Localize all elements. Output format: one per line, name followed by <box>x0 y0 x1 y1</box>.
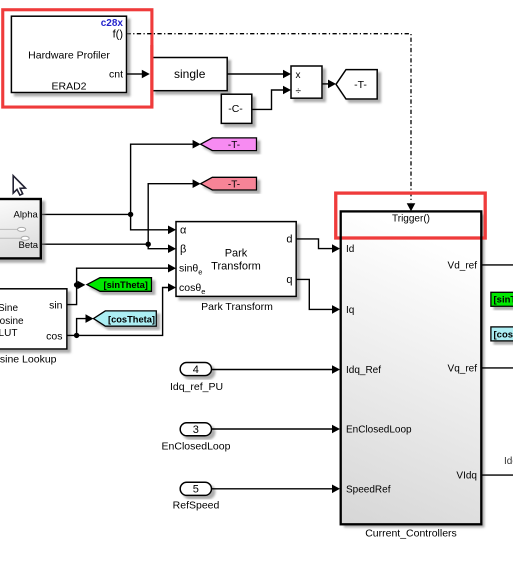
block Park Transform <box>176 222 296 297</box>
svg-text:[cosTheta]: [cosTheta] <box>108 314 155 324</box>
red highlight box around Hardware Profiler <box>3 10 152 107</box>
svg-text:SpeedRef: SpeedRef <box>346 484 391 495</box>
wire product to goto tag <box>322 83 329 85</box>
goto tag cosTheta <box>94 311 157 326</box>
svg-text:RefSpeed: RefSpeed <box>173 500 220 512</box>
slider knob 2 <box>21 236 29 240</box>
svg-text:c28x: c28x <box>101 18 124 29</box>
svg-text:Sine Cosine Lookup: Sine Cosine Lookup <box>0 354 57 366</box>
svg-text:Idq_ref_PU: Idq_ref_PU <box>170 381 223 393</box>
red highlight box around Trigger <box>336 193 485 238</box>
block single (data type conversion) <box>152 58 227 91</box>
wire Beta output <box>41 243 148 245</box>
svg-text:[sinTheta]: [sinTheta] <box>103 280 147 290</box>
svg-text:Park Transform: Park Transform <box>201 301 273 313</box>
goto tag cosTheta right edge <box>491 327 513 341</box>
svg-text:Vq_ref: Vq_ref <box>448 364 478 375</box>
wire f() dash-dot to Trigger <box>127 34 412 203</box>
svg-text:Hardware Profiler: Hardware Profiler <box>28 50 110 62</box>
svg-text:÷: ÷ <box>296 86 302 97</box>
svg-text:-T-: -T- <box>354 79 367 91</box>
svg-text:cnt: cnt <box>109 69 123 81</box>
wire Vq_ref output <box>481 367 513 369</box>
svg-text:Id: Id <box>346 244 354 255</box>
inport 5 <box>180 482 211 495</box>
svg-text:Sine: Sine <box>0 303 18 314</box>
svg-text:Park: Park <box>225 248 248 260</box>
svg-text:Trigger(): Trigger() <box>392 214 430 225</box>
goto tag sinTheta right edge <box>491 292 513 306</box>
junction on sin wire <box>74 282 79 287</box>
goto tag -T- red <box>201 177 257 190</box>
goto tag -T- white <box>336 70 377 99</box>
svg-text:Current_Controllers: Current_Controllers <box>365 528 457 540</box>
svg-text:Vd_ref: Vd_ref <box>448 261 478 272</box>
wire Alpha output <box>41 213 131 215</box>
svg-text:Iq: Iq <box>346 305 354 316</box>
block Hardware Profiler (ERAD2) <box>11 16 126 92</box>
goto tag -T- magenta <box>201 138 257 151</box>
svg-text:β: β <box>180 243 186 255</box>
svg-text:-C-: -C- <box>228 103 243 115</box>
wire Park q to Iq <box>296 279 332 309</box>
block Sine Cosine LUT <box>0 289 67 349</box>
wire Alpha branch to magenta goto tag <box>131 144 193 214</box>
wire inport3 to EnClosedLoop <box>212 428 333 430</box>
svg-text:-T-: -T- <box>228 180 240 191</box>
slider line 1 <box>0 228 22 230</box>
svg-text:ERAD2: ERAD2 <box>51 81 86 93</box>
wire sin output to Park sin theta input <box>67 268 169 304</box>
wire inport4 to Idq_Ref <box>212 369 333 371</box>
slider line 2 <box>0 237 25 239</box>
junction on cos wire <box>74 333 79 338</box>
svg-text:f(): f() <box>113 28 123 40</box>
svg-text:Transform: Transform <box>211 260 261 272</box>
svg-text:4: 4 <box>193 364 199 376</box>
svg-text:Idq_Ref: Idq_Ref <box>346 365 381 376</box>
block Current_Controllers border <box>341 211 482 524</box>
svg-text:-T-: -T- <box>228 140 240 151</box>
wire Park d to Id <box>296 239 332 249</box>
svg-text:single: single <box>174 67 206 81</box>
svg-text:cos: cos <box>46 331 62 343</box>
svg-text:Beta: Beta <box>19 240 39 251</box>
mouse cursor <box>13 176 25 195</box>
wire branch to sinTheta goto <box>77 284 79 286</box>
svg-text:Cosine: Cosine <box>0 316 24 327</box>
svg-text:q: q <box>286 274 292 286</box>
wire -C- to product divide input <box>252 90 284 109</box>
junction on Beta wire <box>146 242 151 247</box>
svg-text:Alpha: Alpha <box>13 210 38 221</box>
product block x divide <box>291 66 322 98</box>
inport 4 <box>180 363 211 376</box>
wire cnt to single <box>127 73 143 75</box>
svg-text:VIdq: VIdq <box>456 471 477 482</box>
svg-text:d: d <box>286 234 292 246</box>
wire single to product <box>227 73 284 75</box>
block Alpha Beta sliders subsystem <box>0 199 41 258</box>
constant -C- <box>221 94 252 123</box>
goto tag sinTheta <box>87 278 152 292</box>
wire inport5 to SpeedRef <box>212 488 333 490</box>
inport 3 <box>180 423 211 436</box>
svg-text:LUT: LUT <box>0 328 17 339</box>
svg-text:EnClosedLoop: EnClosedLoop <box>162 440 231 452</box>
wire VIdq output <box>481 474 513 476</box>
svg-text:3: 3 <box>193 424 199 436</box>
wire Beta branch to red goto tag <box>148 184 193 245</box>
svg-text:x: x <box>296 70 301 81</box>
svg-text:5: 5 <box>193 484 199 496</box>
svg-text:[sinTheta]: [sinTheta] <box>494 295 513 306</box>
wire Beta branch to Park beta input <box>148 244 168 249</box>
svg-text:sin: sin <box>49 300 63 312</box>
wire branch to cosTheta goto <box>77 319 86 336</box>
wire cos output to Park cos theta input <box>67 288 169 336</box>
block Current_Controllers shadow and fill <box>341 211 482 524</box>
wire Vd_ref output <box>481 264 513 266</box>
svg-text:[cosTheta]: [cosTheta] <box>494 329 513 340</box>
svg-text:Idq: Idq <box>504 456 513 467</box>
slider knob 1 <box>18 227 26 231</box>
wire Alpha branch to Park alpha input <box>131 214 169 229</box>
junction on Alpha wire <box>128 212 133 217</box>
svg-text:α: α <box>180 225 187 237</box>
svg-text:EnClosedLoop: EnClosedLoop <box>346 425 412 436</box>
red highlight right edge over single block border <box>150 45 153 106</box>
trigger arrowhead <box>407 203 416 211</box>
